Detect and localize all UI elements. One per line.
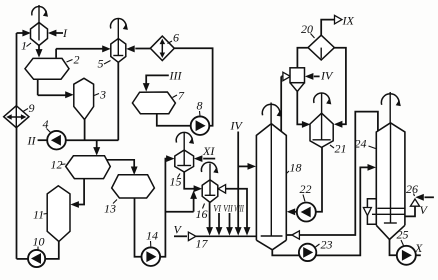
svg-text:III: III	[169, 69, 183, 83]
agitator of mixer 1	[32, 7, 46, 16]
mixer 21	[310, 113, 333, 147]
svg-text:21: 21	[335, 142, 347, 156]
wire stream IV branch into column 18	[238, 165, 248, 167]
wire separator reflux stub	[281, 75, 286, 77]
wire stream IV into separator	[314, 75, 320, 77]
arrowhead into vessel 13	[131, 167, 138, 176]
svg-text:16: 16	[196, 207, 208, 221]
column 24 upper tray	[377, 207, 405, 209]
arrowhead into mixer 15 left	[166, 155, 175, 162]
arrowhead pump 22 into column 18	[287, 208, 296, 215]
separator vessel (reflux drum)	[290, 68, 305, 83]
svg-text:VIII: VIII	[234, 204, 244, 214]
vessel 11	[47, 186, 70, 242]
wire vessel 2 to mixer 5	[56, 48, 103, 50]
mixer 5	[111, 39, 126, 63]
open arrow at mixer 16 right	[218, 185, 226, 194]
wire sparger 26 into column 24	[405, 206, 415, 216]
svg-text:3: 3	[99, 88, 106, 102]
wire column 18 bottoms to pump 23	[272, 250, 299, 256]
wire stream V inlet	[174, 235, 187, 237]
wire column 24 top loop to column 18 bottom	[300, 112, 378, 235]
svg-text:25: 25	[397, 228, 409, 242]
arrowhead into mixer 5 right	[126, 45, 135, 52]
double arrow in exchanger 6	[161, 41, 163, 56]
wire pump 23 discharge to column 24	[316, 167, 369, 255]
wire vessel 2 outlet to vessel 3	[38, 94, 66, 96]
wire into mixer 1 left	[17, 32, 25, 34]
condenser 20	[308, 35, 334, 60]
svg-text:18: 18	[290, 161, 302, 175]
wire condenser 20 down to mixer 21	[334, 48, 346, 125]
svg-text:5: 5	[98, 57, 104, 71]
wire stub into column 18	[286, 234, 292, 236]
svg-text:VII: VII	[223, 204, 233, 214]
vessel 13	[112, 175, 155, 198]
svg-text:11: 11	[33, 208, 44, 222]
wire recycle line from pump 10 up left side to mixer 1	[16, 33, 18, 259]
open arrow into column 18 lower right	[292, 231, 300, 239]
svg-text:15: 15	[170, 175, 182, 189]
arrowhead stream IV into separator	[305, 73, 314, 80]
wire condenser 20 to separator	[297, 48, 307, 68]
wire reflux down into column 18 top	[280, 76, 282, 131]
column 18 shaft top	[270, 103, 272, 124]
svg-text:23: 23	[321, 238, 333, 252]
agitator of mixer 21	[314, 93, 330, 103]
arrowhead into column 24 left	[368, 164, 377, 171]
wire mixer 16 outlet down	[209, 202, 211, 227]
column 18 impeller bar	[261, 235, 283, 237]
separator funnel bottom	[290, 83, 305, 92]
open arrow on header 17	[188, 232, 196, 241]
column 24 conical bottom	[376, 225, 405, 239]
pump 22	[297, 203, 316, 222]
agitator of mixer 5	[111, 19, 127, 29]
wire column 24 circulation loop	[367, 199, 376, 225]
svg-text:IV: IV	[320, 69, 334, 83]
wire stream I into mixer 1	[54, 32, 63, 34]
column 24 lower tray	[372, 213, 405, 215]
column 18 conical bottom	[256, 240, 286, 250]
wire pump 10 discharge	[17, 258, 29, 260]
arrowhead into mixer 16 left	[194, 185, 203, 192]
wire column 24 bottoms to pump 25	[390, 240, 397, 256]
vessel 3	[74, 78, 94, 119]
wire vessel 2 outlet down	[37, 79, 39, 95]
pump 25	[397, 246, 416, 265]
wire branch to mixer 16 feed	[165, 211, 193, 213]
wire pump 25 discharge to stream X	[416, 254, 421, 256]
agitator of mixer 15	[176, 132, 192, 142]
column 18	[256, 124, 286, 241]
svg-text:9: 9	[29, 101, 35, 115]
mixer 16	[202, 180, 218, 203]
wire stream XI into mixer 15	[203, 158, 215, 160]
arrowhead into mixer 5 left	[102, 45, 111, 52]
vessel 2	[25, 58, 69, 79]
wire vessel 12 outlet to vessel 11	[78, 179, 84, 205]
svg-text:17: 17	[196, 237, 209, 251]
wire mixer 5 outlet down	[117, 62, 119, 140]
arrowhead into vessel 11	[70, 201, 79, 208]
wire pump 14 discharge up to mixer 15	[160, 159, 167, 257]
svg-text:8: 8	[197, 99, 203, 113]
wire stream III into vessel 7	[146, 75, 169, 84]
agitator of column 18	[262, 104, 280, 115]
svg-text:24: 24	[355, 137, 367, 151]
arrowhead up into line 15-16	[190, 190, 197, 199]
wire stream V into sparger 26	[425, 196, 434, 198]
column 18 shaft	[270, 124, 272, 236]
sparger 26 open triangle	[410, 199, 419, 206]
svg-text:7: 7	[178, 89, 185, 103]
column 24 shaft	[390, 123, 392, 223]
wire vessel 13 outlet to pump 14	[135, 198, 142, 257]
agitator of mixer 16	[201, 162, 216, 172]
svg-text:22: 22	[300, 182, 312, 196]
wire exchanger 6 to mixer 5	[135, 48, 150, 50]
wire pump 22 discharge	[294, 211, 297, 213]
mixer 15	[175, 150, 194, 172]
pump 8	[191, 116, 210, 135]
wire mixer 1 outlet to vessel 2	[38, 46, 40, 52]
wire stream IV down	[237, 132, 239, 228]
svg-text:IV: IV	[230, 119, 244, 133]
arrowhead stream IV onto header	[235, 227, 242, 236]
mixer 1	[31, 23, 48, 46]
wire drop into vessel 12	[96, 140, 98, 148]
arrowhead stream V	[415, 194, 424, 201]
arrowhead stream I into mixer 1 right	[48, 30, 57, 37]
pump 10	[28, 250, 45, 267]
wire mixer 16 side line down to header	[226, 189, 248, 228]
wire header 17 into column 18	[196, 235, 257, 237]
wire stream VI drop	[218, 213, 220, 228]
wire vessel 2 to mixer 5 riser	[55, 49, 57, 58]
arrowhead into vessel 7	[143, 83, 150, 92]
svg-text:II: II	[27, 134, 37, 148]
wire mixer 21 outlet to pump 22	[316, 147, 322, 211]
arrowhead into mixer 1 left	[22, 30, 31, 37]
open arrow stream IX out	[335, 15, 343, 24]
arrowhead stream VII onto header	[226, 227, 233, 236]
pump 4	[47, 131, 66, 150]
svg-text:IX: IX	[342, 14, 355, 28]
wire branch riser	[193, 198, 195, 212]
arrowhead onto header	[244, 227, 251, 236]
wire condenser 20 to stream IX	[321, 20, 335, 36]
heat exchanger 6	[150, 36, 174, 60]
arrowhead mixer 16 outlet onto header	[206, 227, 213, 236]
wire separator bottoms to mixer 21	[297, 92, 303, 125]
vessel 7	[132, 92, 175, 114]
column 24 impeller bar	[384, 222, 397, 224]
heat exchanger 9	[4, 106, 29, 128]
arrowhead into vessel 12	[93, 147, 100, 156]
open arrow down on loop	[363, 208, 371, 216]
wire pump 4 to stream II	[38, 139, 47, 141]
column 24	[376, 123, 405, 226]
svg-text:2: 2	[74, 53, 80, 67]
svg-text:26: 26	[406, 182, 418, 196]
svg-text:10: 10	[33, 235, 45, 249]
arrowhead into mixer 21 right	[334, 121, 343, 128]
agitator of column 24	[381, 94, 399, 105]
arrowhead into mixer 21 left	[302, 121, 311, 128]
arrowhead stream VI onto header	[216, 227, 223, 236]
svg-text:13: 13	[104, 202, 116, 216]
svg-text:X: X	[414, 241, 423, 255]
wire vessel 12 to vessel 13	[107, 160, 134, 168]
wire mixer 15 outlet to mixer 16	[184, 172, 195, 189]
wire stream VII drop	[229, 213, 231, 228]
wire vessel 7 outlet to pump 8	[157, 114, 191, 126]
wire pump 8 discharge up through exchanger 6	[175, 48, 213, 126]
svg-text:14: 14	[146, 229, 158, 243]
wire junction line to vessel 12 feed	[66, 139, 119, 141]
drain line in condenser 20	[320, 48, 322, 59]
pump 14	[142, 247, 161, 266]
wire vessel 3 outlet down	[84, 119, 86, 140]
arrowhead stream XI into mixer 15 right	[194, 155, 203, 162]
svg-text:VI: VI	[213, 204, 222, 214]
arrowhead into column 18 left	[248, 163, 257, 170]
arrowhead into vessel 3	[65, 91, 74, 98]
arrowhead into vessel 2	[36, 49, 43, 58]
double arrow in exchanger 9	[9, 116, 24, 118]
wire vessel 11 bottoms to pump 10	[45, 242, 58, 259]
vessel 12	[66, 156, 111, 179]
svg-text:1: 1	[21, 39, 27, 53]
open arrow into separator	[283, 72, 291, 81]
svg-text:6: 6	[173, 31, 179, 45]
pump 23	[299, 244, 316, 261]
column 24 shaft top	[389, 92, 391, 123]
svg-text:XI: XI	[202, 144, 215, 158]
